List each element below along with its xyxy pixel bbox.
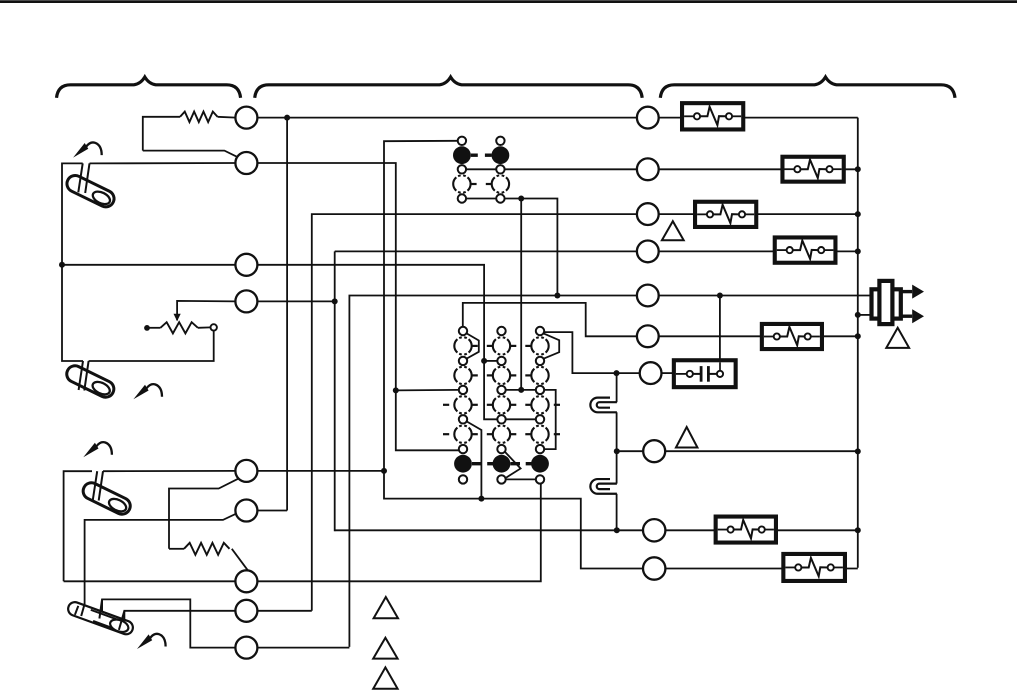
wire: matrix col3 top to terminal 7R — [545, 332, 641, 373]
bus dot 251 — [855, 248, 861, 254]
wire: loop corner left of R4 resistor — [143, 117, 180, 151]
brace: right section — [660, 77, 955, 98]
wire: terminal 1L to junction to terminal 1R — [257, 117, 637, 119]
connector plug P1 outer plate — [872, 289, 901, 318]
bus dot 530 — [855, 527, 861, 533]
terminal 5L-low — [235, 637, 257, 659]
junction dot on row1 — [284, 115, 290, 121]
wire: matrix row 390 col2-col3 — [502, 389, 536, 391]
relay matrix col1 pin r0 — [459, 327, 467, 335]
wire: matrix row 419 col2-col3 — [502, 418, 536, 420]
terminal 8R — [643, 440, 665, 462]
capacitor box C1 — [674, 360, 736, 387]
junction dot at (62,265) — [59, 262, 65, 268]
relay matrix col2 NO contact (dashed) — [493, 426, 510, 443]
relay matrix col3 NO contact (dashed) — [531, 396, 548, 413]
relay K-top linkage dashes (NO row) — [471, 183, 477, 185]
wire: stub from col2 riser to col2 small — [484, 360, 497, 362]
wire: riser x521 down into matrix — [520, 199, 522, 390]
relay matrix col1 pin r10 — [459, 475, 467, 483]
wire: 9R row into terminal — [606, 529, 643, 531]
wire: slant loop into terminal 2L — [143, 151, 238, 158]
bus dot 214 — [855, 211, 861, 217]
relay matrix col1 NC contact (filled) — [454, 455, 472, 473]
wire: switch S1 second electrode to terminal 2L — [90, 162, 236, 164]
junction dot at (481.4,498.6) — [478, 496, 484, 502]
relay matrix col2 pin r10 — [497, 475, 505, 483]
terminal 7R — [640, 362, 662, 384]
load box HR8 — [783, 554, 845, 581]
relay matrix col3 NO contact (dashed) — [531, 337, 548, 354]
bus dot 336 — [855, 333, 861, 339]
junction dot on col2 riser — [481, 358, 487, 364]
junction dot at (521.2,389.9) — [518, 387, 524, 393]
wire: vertical from row1 junction down to terminal 2L-low row — [286, 118, 288, 511]
relay matrix col2 pin r0 — [497, 327, 505, 335]
wire: U loop 1L-low to 3L-low — [64, 471, 92, 581]
terminal 10R — [643, 557, 665, 579]
wire: 4R row from corner to terminal 4R — [335, 250, 637, 252]
rotation arrow above S3 — [83, 443, 98, 458]
relay matrix col2 pin r2 — [497, 357, 505, 365]
resistor R-low zigzag — [184, 543, 230, 555]
bus dot 315 — [855, 312, 861, 318]
right bus vertical — [857, 118, 859, 568]
wire: 5R row to terminal 5R — [557, 295, 637, 297]
relay K-top colB NC contact (filled) — [492, 146, 510, 164]
wire: terminal 6R to fan box to bus — [659, 335, 858, 337]
load box HR3 — [695, 202, 756, 227]
potentiometer R-pot zigzag — [160, 322, 198, 333]
wire: relay bottom smalls to risers — [466, 199, 557, 296]
wire: col1 drop bypass row419 to bottom wire — [467, 422, 482, 499]
wire: terminal 8R to bus — [665, 450, 858, 452]
wire: terminal 2R to heater HR2 to bus — [659, 168, 858, 170]
wire: terminal 10R to heater HR8 to bus — [665, 568, 857, 570]
wire: matrix col1 top entry to 6R corner — [463, 303, 637, 336]
wire: vertical x616 segment 3 — [616, 494, 618, 531]
wire: col2 bypass around filled contact — [505, 452, 521, 478]
note triangle 2 (near connector) — [886, 328, 909, 348]
wire: 5L-low right to 5R riser — [257, 647, 349, 649]
note triangle 5 — [373, 638, 397, 659]
pot right open terminal — [211, 324, 217, 330]
wire: matrix bottom wire to 10R drop — [481, 499, 643, 569]
relay matrix col2 NO contact (dashed) — [493, 337, 510, 354]
mercury switch S2 electrodes — [79, 361, 83, 390]
wire: terminal 2L right to corner — [257, 163, 395, 390]
heat anticipator H2 (hairpin) — [590, 479, 617, 494]
relay K-top colB pin top — [496, 137, 504, 145]
wire: riser continues to matrix row 449 — [396, 390, 459, 450]
relay K-top colA NC contact (filled) — [453, 146, 471, 164]
wire: 4L-low right to 3R riser — [257, 610, 311, 612]
wire: pot right lead — [198, 326, 211, 328]
note triangle 1 (near 4R) — [662, 221, 684, 240]
relay K-top linkage dashes (NC row) — [471, 153, 478, 156]
relay matrix col1 pin r6 — [459, 415, 467, 423]
wire: terminal 4L right to junction — [257, 300, 334, 302]
wire: vertical x616 segment 2 — [616, 412, 618, 483]
relay matrix col1 NO contact (dashed) — [454, 337, 471, 354]
junction dot at (334,301) — [332, 298, 338, 304]
terminal 1L — [235, 107, 257, 129]
rotation arrow below S4 — [137, 634, 152, 649]
wire: feed matrix col1 row-390 — [396, 389, 459, 392]
wire: switch S3 wire to terminal 1L-low — [103, 470, 235, 472]
mercury switch S3 bulb — [80, 480, 133, 517]
wire: vertical x616 from 7R dot through hairpins — [616, 373, 618, 402]
terminal 2L-low — [235, 500, 257, 522]
load box HR4 — [775, 237, 836, 262]
relay matrix col3 pin r2 — [536, 357, 544, 365]
wire: switch S2 left wire segment — [62, 265, 83, 361]
wire: terminal 1R to heater HR1 to bus — [659, 117, 858, 119]
terminal 1L-low — [235, 460, 257, 482]
terminal 3L-low — [235, 570, 257, 592]
wire: 9R row corner to terminal 9R — [335, 529, 606, 531]
wire: drop from 5R row into capacitor box right terminal — [719, 296, 721, 371]
relay matrix col1 pin r4 — [459, 386, 467, 394]
pot left end dot — [144, 325, 150, 331]
wire: 4R riser to 9R row corner — [334, 251, 337, 530]
wire: terminal 2L-low to riser — [257, 510, 287, 512]
relay matrix col3 pin r10 — [536, 475, 544, 483]
wire: 3R row from corner to terminal 3R — [312, 214, 637, 611]
connector arrow top — [901, 290, 912, 293]
note triangle 6 — [373, 667, 397, 688]
junction dot at col1 row-390 feed — [393, 387, 399, 393]
terminal 4R — [637, 241, 659, 263]
junction dot at (557,295) — [554, 293, 560, 299]
relay matrix col3 NO contact (dashed) — [531, 367, 548, 384]
mercury switch S4 inner sleeve — [87, 609, 130, 634]
wire: terminal 5R to connector plug — [659, 295, 871, 297]
terminal 6R — [637, 325, 659, 347]
mercury switch S3 electrodes — [93, 471, 97, 500]
wire: 5L-low left wire from switch S4 electrode B — [102, 599, 235, 647]
brace: middle section — [255, 77, 643, 98]
resistor R-top zigzag — [180, 112, 217, 122]
relay matrix col2 NC contact (filled) — [493, 455, 511, 473]
wire: terminal 3L right to corner down into matrix col2 — [257, 265, 497, 420]
wire: pot left lead — [150, 327, 161, 329]
note triangle 4 — [374, 597, 398, 618]
relay matrix col1 NO contact (dashed) — [454, 426, 471, 443]
terminal 9R — [643, 519, 665, 541]
load box HR5 (fan) — [762, 324, 822, 349]
bus dot 169 — [855, 166, 861, 172]
wire: col1 bypass row331-361 — [467, 333, 479, 358]
wire: col3 bottom drop to 3L-low row — [257, 484, 540, 582]
terminal 4L-low — [235, 600, 257, 622]
top rule — [0, 0, 1017, 3]
matrix outer linkage dashes y405 — [443, 404, 449, 406]
rotation arrow above S1 — [73, 143, 88, 158]
wire: 8R row — [617, 450, 643, 452]
wire: resistor R-low left lead — [169, 548, 184, 550]
matrix linkage dashes y434 — [472, 433, 478, 435]
relay K-top colB pin bottom — [496, 194, 504, 202]
wire: col3 bypass row331-361 — [544, 333, 560, 358]
connector arrow bottom — [901, 315, 912, 318]
relay K-top colA pin bottom — [458, 194, 466, 202]
junction dot at (616.8,530.3) — [614, 527, 620, 533]
wire: terminal 9R to heater HR7 to bus — [665, 529, 857, 531]
mercury switch S4 bulb — [66, 600, 135, 636]
relay matrix col3 pin r6 — [536, 415, 544, 423]
relay matrix col2 pin r4 — [497, 386, 505, 394]
relay matrix col3 pin r8 — [536, 445, 544, 453]
terminal 1R — [637, 107, 659, 129]
relay matrix col3 NO contact (dashed) — [531, 426, 548, 443]
junction dot at (384,471) — [381, 468, 387, 474]
relay matrix col2 pin r8 — [497, 445, 505, 453]
relay matrix col2 pin r6 — [497, 415, 505, 423]
matrix linkage dashes NC row — [472, 462, 482, 465]
relay matrix col1 NO contact (dashed) — [454, 367, 471, 384]
relay matrix col1 NO contact (dashed) — [454, 396, 471, 413]
wire: terminal 3L row to matrix col2 riser — [62, 264, 235, 266]
junction dot at (616.5,373.1) — [614, 370, 620, 376]
matrix linkage dashes y375 — [472, 374, 478, 376]
relay matrix col3 pin r4 — [536, 386, 544, 394]
wire: terminal 3R to heater HR3 to bus — [659, 213, 858, 215]
junction dot at (719.9,295.5) — [717, 293, 723, 299]
relay matrix col1 pin r2 — [459, 357, 467, 365]
mercury switch S1 bulb — [64, 173, 117, 210]
wire: 5R row from corner — [349, 296, 557, 647]
wire: resistor R-low left lead up and slant into 1L-low — [169, 479, 238, 549]
brace: left section — [57, 77, 241, 98]
wire: col3 long bypass row390-449 — [544, 390, 556, 449]
wire: bus to connector lower plug — [858, 314, 871, 316]
wire: riser continues down to matrix bottom wire — [384, 471, 481, 499]
relay matrix col2 NO contact (dashed) — [493, 396, 510, 413]
load box HR2 — [782, 157, 843, 182]
relay K-top colA pin mid — [458, 165, 466, 173]
relay K-top colB NO contact (dashed) — [492, 175, 509, 192]
relay matrix col3 NC contact (filled) — [531, 455, 549, 473]
matrix outer linkage dashes y434 — [443, 433, 449, 435]
wire: relay smalls row to terminal 2R — [466, 168, 637, 170]
mercury switch S2 bulb — [64, 363, 117, 400]
wire: left corner to switch S1 electrode — [62, 163, 83, 264]
wire: matrix bottom row col2-col3 — [502, 478, 536, 480]
mercury switch S1 electrodes — [78, 163, 82, 192]
wire: terminal 4R to heater HR4 to bus — [659, 250, 858, 252]
terminal 5R — [637, 285, 659, 307]
relay K-top colB pin mid — [496, 165, 504, 173]
relay matrix col3 pin r0 — [536, 327, 544, 335]
rotation arrow below S2 — [133, 385, 148, 400]
pot wiper arrowhead — [174, 314, 181, 322]
note triangle 3 (near 8R) — [676, 427, 698, 448]
terminal 4L — [235, 290, 257, 312]
wire: relay A top feed — [384, 141, 458, 471]
wire: 1L-low row to riser — [257, 470, 384, 472]
junction dot bus 451 — [855, 448, 861, 454]
heat anticipator H1 (hairpin) — [590, 398, 617, 413]
load box HR7 — [716, 517, 776, 543]
terminal 2R — [637, 158, 659, 180]
wire: resistor R-top right lead to terminal 1L — [218, 116, 237, 119]
wire: 4L-low left wire into blob electrode — [124, 611, 235, 622]
wire: pot terminal down and left to switch S2 wire — [89, 331, 214, 361]
wire: pot wiper corner — [177, 301, 235, 320]
relay matrix col2 NO contact (dashed) — [493, 367, 510, 384]
terminal 3R — [637, 203, 659, 225]
wire: 2L-low slant feed from switch S4 electrode A — [85, 513, 239, 605]
junction dot at (616.8,451.2) — [614, 448, 620, 454]
mercury switch S4 electrodes — [81, 604, 84, 616]
matrix linkage dashes y405 — [472, 404, 478, 406]
matrix linkage dashes y346 — [472, 345, 478, 347]
connector plug P1 inner plate — [879, 281, 892, 324]
relay matrix col1 pin r8 — [459, 445, 467, 453]
junction dot at (521.2,198.5) — [518, 196, 524, 202]
wire: resistor R-low right slant into 3L-low — [232, 549, 248, 570]
terminal 2L — [235, 152, 257, 174]
load box HR1 — [682, 103, 743, 129]
wire: terminal 7R to capacitor box — [662, 372, 676, 374]
wire: 3L-low left wire — [64, 580, 236, 582]
terminal 3L — [235, 254, 257, 276]
relay K-top colA pin top — [458, 137, 466, 145]
relay K-top colA NO contact (dashed) — [453, 175, 470, 192]
